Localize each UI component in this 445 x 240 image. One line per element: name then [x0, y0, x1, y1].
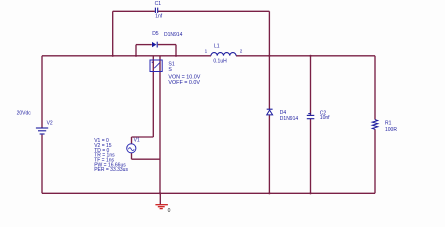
wire switch right leg down to bottom wire: [159, 56, 161, 194]
node junction D5 right tap: [175, 55, 177, 57]
svg-text:C1: C1: [155, 1, 162, 7]
wire main horizontal left segment: [42, 55, 211, 57]
svg-text:V1: V1: [134, 138, 140, 144]
node junction C2 rail bottom: [309, 192, 311, 194]
wire bend horizontal to V1 top: [132, 136, 154, 138]
node junction ground on bottom wire: [159, 192, 161, 194]
resistor R1: [372, 120, 377, 130]
svg-text:VOFF = 0.0V: VOFF = 0.0V: [168, 80, 200, 86]
svg-text:L1: L1: [214, 44, 220, 50]
wire main horizontal right of inductor: [236, 55, 375, 57]
wire top branch horizontal left of C1: [113, 10, 155, 12]
svg-text:1nf: 1nf: [155, 14, 163, 20]
wire top branch horizontal right of C1: [158, 10, 269, 12]
wire ground stub: [159, 193, 161, 204]
wire V1 top stub: [131, 137, 133, 144]
wire D5 loop left vertical: [135, 45, 137, 56]
capacitor C2: [307, 114, 315, 119]
wire C2 rail lower: [310, 119, 312, 194]
diode D5: [152, 42, 157, 48]
wire D4 rail upper: [268, 56, 270, 109]
svg-text:D1N914: D1N914: [164, 32, 183, 38]
capacitor C1: [155, 8, 157, 13]
svg-text:0.1uH: 0.1uH: [213, 58, 227, 64]
svg-text:S: S: [168, 67, 172, 73]
wire left rail upper: [41, 56, 43, 128]
svg-text:1: 1: [205, 48, 208, 53]
svg-text:20Vdc: 20Vdc: [17, 110, 32, 116]
source V1 parameter text block: [94, 138, 128, 173]
node junction D4 rail top: [268, 55, 270, 57]
wire D5 loop top right segment: [158, 44, 176, 46]
wire right rail lower: [374, 129, 376, 193]
wire V1 bottom horizontal: [132, 158, 161, 160]
wire V1 bottom stub: [131, 153, 133, 159]
node junction C2 rail top: [309, 55, 311, 57]
wire C2 rail upper: [310, 56, 312, 115]
source V1 waveform glyph: [128, 148, 134, 151]
switch U-box S1: [150, 60, 162, 72]
svg-text:D1N914: D1N914: [280, 116, 299, 122]
ground 0 symbol: [155, 205, 168, 209]
svg-text:10nf: 10nf: [320, 115, 330, 121]
wire vertical from top branch down to main node left: [112, 11, 114, 56]
svg-text:2: 2: [240, 49, 243, 54]
node junction D5 left tap: [135, 55, 137, 57]
wire D4 rail lower: [268, 115, 270, 193]
switch S1 arm: [152, 62, 160, 68]
wire bottom horizontal: [42, 192, 375, 194]
source V1 pulse circle: [127, 144, 136, 153]
inductor L1: [211, 53, 236, 56]
node junction at C1 branch on main wire: [112, 55, 114, 57]
svg-text:V2: V2: [47, 120, 53, 126]
wire left rail lower: [41, 135, 43, 194]
wire D5 loop top left segment: [136, 44, 152, 46]
node junction D4 rail bottom: [268, 192, 270, 194]
wire D5 loop right vertical: [175, 45, 177, 56]
diode D4: [267, 109, 273, 115]
wire switch left leg down to bend: [152, 56, 154, 137]
source V2 battery: [36, 128, 48, 134]
svg-text:0: 0: [168, 208, 171, 214]
svg-text:100R: 100R: [385, 127, 397, 133]
wire vertical x=269 top branch to main wire: [268, 11, 270, 56]
svg-text:D5: D5: [152, 31, 159, 37]
wire right rail upper: [374, 56, 376, 120]
svg-text:PER = 33.33us: PER = 33.33us: [94, 167, 128, 173]
svg-text:R1: R1: [385, 121, 392, 127]
